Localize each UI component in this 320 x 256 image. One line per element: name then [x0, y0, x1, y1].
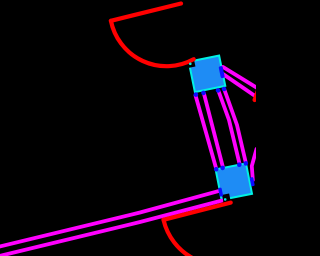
pad U2-3 (top edge) [237, 162, 242, 167]
pad U2-1 (top edge) [214, 167, 219, 172]
IC U2 body (lower footprint) [216, 163, 252, 199]
wire: magenta trace pair lower-left, line P1 [0, 191, 220, 247]
wire: magenta trace pair lower-left, line P2 [0, 201, 222, 256]
pin-1 notch of U1 (black corner marker) [188, 60, 196, 68]
wire: red trace, bottom arc exiting bottom edge [164, 220, 194, 256]
IC U1 body (upper footprint) [189, 56, 226, 93]
wire: trace T2 between U1 pad 2 and U2 pad 2 [204, 93, 223, 167]
wire: red trace stub at right edge [255, 91, 258, 101]
wire: red trace, top line segment [111, 4, 181, 21]
pin-1 dot of U1 (cyan) [189, 63, 192, 66]
wire: trace T4 between U1 pad 4 and U2 pad 4 [225, 90, 246, 163]
pad U1-1 (bottom edge) [194, 92, 199, 97]
wire: trace stub from U2 right pad to right edge [252, 149, 257, 180]
pin-1 dot of U2 (cyan) [224, 198, 227, 201]
pad U1-2 (bottom edge) [201, 91, 206, 96]
pad U1-3 (bottom edge) [216, 88, 221, 93]
pad U1-4 (bottom edge) [222, 87, 227, 92]
pad U1-5 (right edge, long bar) [219, 66, 225, 79]
pad U2-5 (left edge, long bar) [218, 187, 223, 197]
wire: red trace, bottom line segment [164, 203, 231, 220]
wire: trace T1 between U1 pad 1 and U2 pad 1 [196, 95, 217, 168]
pad U2-6 (right edge, long bar) [250, 177, 255, 187]
wire: red trace, top arc ending at U1 pin-1 corner [111, 21, 194, 66]
wire: trace A from U1 right pad to right edge [223, 67, 258, 89]
pad U2-4 (top edge) [244, 161, 249, 166]
wire: trace T3 between U1 pad 3 and U2 pad 3 [219, 91, 240, 164]
pad U2-2 (top edge) [220, 166, 225, 171]
wire: trace B from U1 right pad to right edge [223, 74, 258, 98]
pin-1 notch of U2 (black corner marker) [222, 194, 230, 202]
